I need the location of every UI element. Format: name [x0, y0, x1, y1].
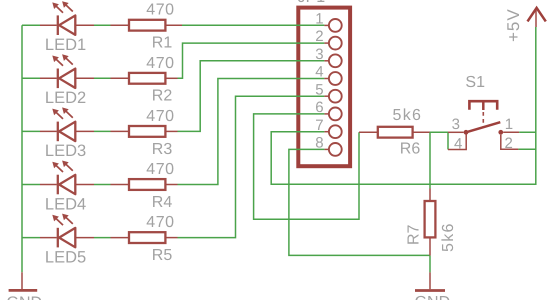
- svg-text:5: 5: [315, 81, 323, 98]
- switch S1 pin 4 line: [448, 134, 466, 150]
- connector JP1 pin 4 circle: [329, 72, 342, 85]
- supply +5V arrow: [528, 8, 546, 22]
- switch S1 pin 1 line: [503, 131, 519, 133]
- connector JP1 pin 5 stub: [324, 95, 329, 97]
- resistor R2 body: [129, 73, 165, 84]
- resistor R5 right pin: [165, 237, 177, 239]
- svg-text:GND: GND: [415, 294, 451, 300]
- connector JP1 pin 8 circle: [329, 143, 342, 156]
- wire net branch down to R7: [429, 132, 431, 188]
- switch S1 actuator bracket: [469, 101, 497, 110]
- ground GND right pin: [429, 272, 431, 289]
- wire net R1 to JP1 pin 1: [182, 24, 324, 26]
- resistor R1 body: [129, 20, 165, 31]
- resistor R5 left pin: [111, 237, 130, 239]
- wire net R4 to JP1 pin 4: [178, 79, 325, 185]
- connector JP1 pin 7 circle: [329, 125, 342, 138]
- wire net R5 to JP1 pin 5: [178, 96, 325, 237]
- resistor R6 body: [378, 127, 413, 138]
- switch S1 dashed link: [482, 112, 484, 127]
- resistor R2 left pin: [111, 77, 130, 79]
- svg-text:2: 2: [315, 28, 323, 45]
- wire net JP1 pin 6 to R6: [254, 114, 359, 219]
- wire net R3 to JP1 pin 3: [178, 61, 325, 132]
- svg-text:LED4: LED4: [45, 195, 86, 213]
- LED LED4: [40, 161, 94, 195]
- resistor R7 body: [425, 201, 436, 237]
- wire net JP1 pin 7 to +5V rail: [271, 27, 536, 184]
- svg-text:4: 4: [454, 135, 462, 152]
- svg-text:470: 470: [146, 55, 174, 72]
- wire net LED3 cathode branch: [22, 130, 40, 132]
- svg-text:R3: R3: [152, 141, 173, 158]
- svg-text:5k6: 5k6: [440, 222, 457, 252]
- svg-text:1: 1: [505, 116, 513, 133]
- connector JP1 pin 6 circle: [329, 108, 342, 121]
- wire net LED4 to R4: [94, 184, 111, 186]
- resistor R1 right pin: [165, 24, 182, 26]
- connector JP1 pin 2 stub: [324, 42, 329, 44]
- connector JP1 pin 3 stub: [324, 60, 329, 62]
- svg-text:1: 1: [315, 11, 323, 28]
- resistor R7 bottom pin: [429, 237, 431, 255]
- resistor R1 left pin: [111, 24, 130, 26]
- switch S1 pin 3 line: [448, 131, 464, 133]
- resistor R2 right pin: [165, 77, 177, 79]
- wire net R6 to switch pin 3: [430, 131, 448, 133]
- connector JP1 pin 4 stub: [324, 78, 329, 80]
- resistor R6 right pin: [413, 131, 430, 133]
- svg-text:R7: R7: [406, 224, 423, 245]
- resistor R3 left pin: [111, 130, 130, 132]
- svg-text:JP1: JP1: [298, 0, 326, 6]
- ground GND left bar: [9, 289, 38, 292]
- wire net LED1 cathode branch: [22, 24, 40, 26]
- wire net LED2 cathode branch: [22, 77, 40, 79]
- wire net R7 bottom to GND: [429, 256, 431, 273]
- connector JP1 pin 8 stub: [324, 148, 329, 150]
- resistor R4 body: [129, 179, 165, 190]
- svg-text:R6: R6: [400, 141, 421, 158]
- wire net LED3 to R3: [94, 130, 111, 132]
- wire left cathode rail: [21, 25, 23, 272]
- svg-text:470: 470: [146, 108, 174, 125]
- wire net LED5 cathode branch: [22, 237, 40, 239]
- svg-text:LED5: LED5: [45, 248, 86, 266]
- connector JP1 pin 1 stub: [324, 24, 329, 26]
- connector JP1 pin 6 stub: [324, 113, 329, 115]
- resistor R3 body: [129, 126, 165, 137]
- LED LED5: [40, 214, 94, 248]
- wire net branch down to switch pin 4: [447, 132, 449, 149]
- LED LED2: [40, 54, 94, 88]
- LED LED3: [40, 107, 94, 141]
- connector JP1 pin 2 circle: [329, 37, 342, 50]
- svg-text:4: 4: [315, 64, 323, 81]
- wire net LED2 to R2: [94, 77, 111, 79]
- resistor R6 left pin: [359, 131, 378, 133]
- svg-text:GND: GND: [7, 294, 43, 300]
- svg-text:LED3: LED3: [45, 142, 86, 160]
- svg-text:470: 470: [146, 161, 174, 178]
- connector JP1 box: [298, 8, 350, 167]
- svg-text:LED2: LED2: [45, 89, 86, 107]
- switch S1 actuator stem: [482, 101, 485, 110]
- svg-text:R1: R1: [152, 35, 173, 52]
- switch S1 lever: [466, 122, 500, 132]
- wire net LED1 to R1: [94, 24, 111, 26]
- svg-text:LED1: LED1: [45, 36, 86, 54]
- switch S1 left contact dot: [464, 130, 469, 135]
- svg-text:2: 2: [505, 135, 513, 152]
- wire net LED5 to R5: [94, 237, 111, 239]
- connector JP1 pin 3 circle: [329, 54, 342, 67]
- svg-text:R4: R4: [152, 194, 173, 211]
- resistor R3 right pin: [165, 130, 177, 132]
- resistor R4 left pin: [111, 184, 130, 186]
- resistor R7 top pin: [429, 189, 431, 202]
- resistor R5 body: [129, 232, 165, 243]
- connector JP1 pin 5 circle: [329, 90, 342, 103]
- svg-text:+5V: +5V: [504, 8, 523, 42]
- svg-text:3: 3: [315, 46, 323, 63]
- wire net JP1 pin 8 to GND: [289, 149, 430, 255]
- connector JP1 pin 7 stub: [324, 131, 329, 133]
- switch S1 right contact dot: [498, 130, 503, 135]
- svg-text:470: 470: [146, 2, 174, 19]
- supply +5V pin: [535, 9, 537, 28]
- LED LED1: [40, 1, 94, 35]
- resistor R4 right pin: [165, 184, 177, 186]
- svg-text:R2: R2: [152, 88, 173, 105]
- connector JP1 pin 1 circle: [329, 19, 342, 32]
- wire net LED4 cathode branch: [22, 184, 40, 186]
- ground GND left pin: [21, 272, 23, 289]
- svg-text:3: 3: [452, 116, 460, 133]
- wire net switch pin 1 to +5V rail: [519, 131, 536, 133]
- svg-text:R5: R5: [152, 247, 173, 264]
- wire net R2 to JP1 pin 2: [178, 43, 325, 78]
- svg-text:470: 470: [146, 214, 174, 231]
- switch S1 pin 2 line: [501, 135, 519, 150]
- svg-text:S1: S1: [465, 74, 485, 91]
- ground GND right bar: [415, 289, 445, 292]
- wire net switch pin 2 to +5V rail: [518, 148, 535, 150]
- svg-text:5k6: 5k6: [393, 107, 423, 124]
